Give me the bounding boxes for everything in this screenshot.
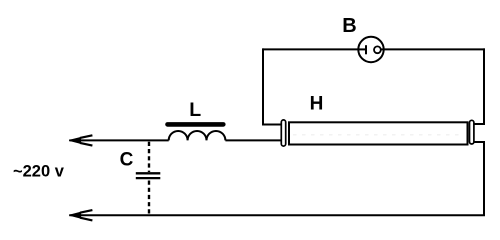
- inductor L : core bar: [168, 122, 224, 127]
- starter B : glow-lamp circle with electrodes: [358, 37, 384, 62]
- capacitor C : plates: [136, 173, 161, 178]
- inductor L : winding humps: [169, 131, 226, 140]
- wire : right horizontal into lamp top pin: [474, 123, 485, 125]
- arrow : bottom mains arrow: [69, 210, 92, 220]
- lamp H right end electrode pill: [470, 120, 474, 144]
- wire : left horizontal into lamp top pin: [263, 124, 282, 126]
- lamp H left end electrode pill: [281, 120, 285, 146]
- svg-text:B: B: [342, 15, 356, 37]
- wire : starter loop top-left horizontal (to lamp B circle): [263, 48, 367, 50]
- svg-text:~220 v: ~220 v: [13, 163, 65, 181]
- svg-text:L: L: [189, 99, 201, 121]
- capacitor C : lower dashed lead: [148, 181, 150, 215]
- wire : bottom mains wire: [69, 214, 485, 216]
- wire : main top wire left segment: [69, 139, 168, 141]
- wire : right vertical lower: [483, 141, 485, 216]
- wire : starter loop left vertical: [262, 48, 264, 125]
- svg-text:C: C: [120, 150, 134, 171]
- capacitor C : upper dashed lead: [148, 142, 150, 172]
- wire : main top wire right segment to lamp bottom pin: [225, 139, 281, 141]
- svg-text:H: H: [310, 93, 324, 114]
- wire : right horizontal from lamp bottom pin: [474, 141, 485, 143]
- wire : starter loop top-right horizontal: [381, 48, 485, 50]
- lamp H : fluorescent tube body: [289, 122, 468, 144]
- arrow : top mains arrow: [69, 135, 92, 145]
- wire : starter loop right vertical upper: [483, 48, 485, 125]
